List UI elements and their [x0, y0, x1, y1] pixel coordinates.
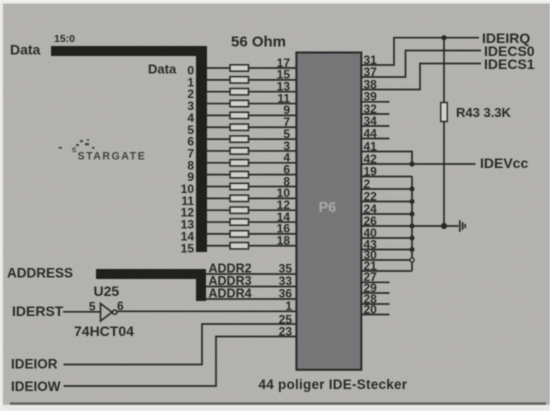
watermark STARGATE stamp [59, 139, 147, 163]
wire P6 pin 20 stub [361, 314, 389, 316]
wire resistor to P6 pin 4 [249, 162, 297, 164]
wire data5 bus to resistor [207, 126, 230, 128]
wire resistor to P6 pin 18 [249, 245, 297, 247]
wire ground ladder vertical [411, 177, 413, 272]
wire data2 bus to resistor [207, 91, 230, 93]
node ladder junction pin 26 [410, 224, 415, 229]
wire data4 bus to resistor [207, 114, 230, 116]
resistor 56 Ohm data15 [230, 243, 249, 249]
resistor 56 Ohm data14 [230, 231, 249, 237]
wire resistor to P6 pin 17 [249, 67, 297, 69]
wire P6 pin 32 stub [361, 113, 389, 115]
wire data13 bus to resistor [207, 221, 230, 223]
wire P6 pin 2 to ladder [361, 188, 412, 190]
wire P6 pin 38 to IDECS1 net [361, 64, 481, 90]
wire data6 bus to resistor [207, 138, 230, 140]
resistor 56 Ohm data12 [230, 207, 249, 213]
wire P6 pin 26 to ladder [361, 225, 412, 227]
wire resistor to P6 pin 14 [249, 221, 297, 223]
wire data9 bus to resistor [207, 174, 230, 176]
resistor 56 Ohm data3 [230, 100, 249, 106]
wire P6 pin 39 stub [361, 101, 389, 103]
resistor 56 Ohm data13 [230, 219, 249, 225]
wire IDEIOR to P6 pin 25 [64, 324, 297, 365]
resistor 56 Ohm data9 [230, 171, 249, 177]
connector P6 body [296, 53, 361, 370]
wire data8 bus to resistor [207, 162, 230, 164]
resistor 56 Ohm data6 [230, 136, 249, 142]
wire data0 bus to resistor [207, 67, 230, 69]
resistor 56 Ohm data11 [230, 195, 249, 201]
resistor 56 Ohm data1 [230, 77, 249, 83]
wire P6 pin 19 to ladder [361, 176, 412, 178]
wire P6 pin 31 to IDEIRQ net [361, 38, 479, 65]
wire IDERST to inverter input [63, 311, 101, 313]
wire P6 pin 27 stub [361, 281, 389, 283]
node IDEIRQ junction [441, 35, 446, 40]
node ladder open junction pin 30 [410, 258, 414, 262]
resistor 56 Ohm data10 [230, 183, 249, 189]
node pin41-42 junction [409, 161, 414, 166]
wire P6 pin 21 to ladder [361, 270, 412, 272]
wire data11 bus to resistor [207, 197, 230, 199]
resistor 56 Ohm data4 [230, 112, 249, 118]
wire P6 pin 22 to ladder [361, 201, 412, 203]
wire data12 bus to resistor [207, 209, 230, 211]
wire resistor to P6 pin 11 [249, 103, 297, 105]
wire ADDR2 bus to P6 pin 35 [206, 273, 296, 275]
wire resistor to P6 pin 12 [249, 209, 297, 211]
wire inverter output to P6 pin 1 [117, 310, 296, 312]
node ladder junction pin 22 [410, 199, 415, 204]
wire resistor to P6 pin 9 [249, 114, 297, 116]
resistor R43 [441, 103, 448, 122]
wire P6 pin 42 to IDEVcc [361, 163, 475, 165]
wire ground net extension [412, 225, 459, 227]
wire resistor to P6 pin 13 [249, 91, 297, 93]
resistor 56 Ohm data7 [230, 148, 249, 154]
inverter U25 (74HCT04) [101, 304, 113, 322]
wire resistor to P6 pin 10 [249, 197, 297, 199]
resistor 56 Ohm data0 [230, 65, 249, 71]
wire P6 pin 24 to ladder [361, 213, 412, 215]
wire P6 pin 30 to ladder [361, 259, 412, 261]
wire IDEIOW to P6 pin 23 [64, 337, 297, 387]
wire data3 bus to resistor [207, 103, 230, 105]
wire resistor to P6 pin 5 [249, 138, 297, 140]
wire resistor to P6 pin 8 [249, 186, 297, 188]
wire P6 pin 40 to ladder [361, 237, 412, 239]
node ladder junction pin 40 [410, 236, 415, 241]
resistor 56 Ohm data2 [230, 89, 249, 95]
wire data10 bus to resistor [207, 186, 230, 188]
wire P6 pin 34 stub [361, 125, 389, 127]
node ladder junction pin 43 [410, 247, 415, 252]
wire R43 to ground net [443, 122, 445, 227]
resistor 56 Ohm data5 [230, 124, 249, 130]
wire P6 pin 28 stub [361, 303, 389, 305]
wire ADDR3 bus to P6 pin 33 [206, 286, 296, 288]
wire P6 pin 29 stub [361, 292, 389, 294]
wire P6 pin 43 to ladder [361, 249, 412, 251]
wire data14 bus to resistor [207, 233, 230, 235]
wire P6 pin 37 to IDECS0 net [361, 51, 481, 78]
wire data15 bus to resistor [207, 245, 230, 247]
resistor 56 Ohm data8 [230, 160, 249, 166]
node ladder junction pin 2 [410, 187, 415, 192]
address bus (thick) [96, 269, 206, 301]
wire IDEIRQ to R43 [443, 38, 445, 103]
node ground junction [441, 223, 447, 229]
data bus (thick) [51, 46, 207, 252]
node ladder junction pin 24 [410, 212, 415, 217]
wire resistor to P6 pin 3 [249, 150, 297, 152]
wire resistor to P6 pin 16 [249, 233, 297, 235]
wire resistor to P6 pin 6 [249, 174, 297, 176]
wire resistor to P6 pin 15 [249, 79, 297, 81]
ground symbol [460, 220, 465, 232]
wire data1 bus to resistor [207, 79, 230, 81]
wire P6 pin 44 stub [361, 138, 389, 140]
wire resistor to P6 pin 7 [249, 126, 297, 128]
wire P6 pin 41 link to pin 42 [361, 152, 412, 165]
wire ADDR4 bus to P6 pin 36 [206, 298, 296, 300]
wire data7 bus to resistor [207, 150, 230, 152]
